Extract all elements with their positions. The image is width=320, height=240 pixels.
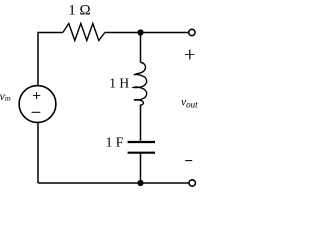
resistor R 1 ohm xyxy=(63,24,105,41)
terminal bottom right open circle xyxy=(189,180,195,186)
svg-text:vout: vout xyxy=(181,97,198,110)
terminal top right open circle xyxy=(189,29,195,35)
svg-text:1 Ω: 1 Ω xyxy=(68,3,90,19)
source minus sign xyxy=(32,111,41,113)
node junction dot bottom xyxy=(137,180,143,186)
wire: bottom rail xyxy=(38,182,189,184)
source v_in circle xyxy=(19,86,56,123)
source plus sign xyxy=(33,95,40,97)
svg-text:1 F: 1 F xyxy=(106,135,124,150)
wire: left vertical top segment xyxy=(38,33,63,86)
svg-text:1 H: 1 H xyxy=(109,75,129,90)
wire: junction down to inductor xyxy=(140,33,142,63)
label - output polarity xyxy=(185,160,192,162)
svg-text:vin: vin xyxy=(0,91,11,103)
capacitor C 1 F top plate xyxy=(128,141,155,143)
wire: top right horizontal xyxy=(105,32,189,34)
wire: capacitor to bottom rail xyxy=(140,154,142,183)
node junction dot top xyxy=(137,29,143,35)
wire: inductor to capacitor xyxy=(140,105,142,141)
inductor L 1 H xyxy=(134,63,147,106)
label + output polarity xyxy=(185,53,195,55)
wire: left vertical bottom segment xyxy=(37,122,39,183)
capacitor C 1 F bottom plate xyxy=(128,152,155,154)
